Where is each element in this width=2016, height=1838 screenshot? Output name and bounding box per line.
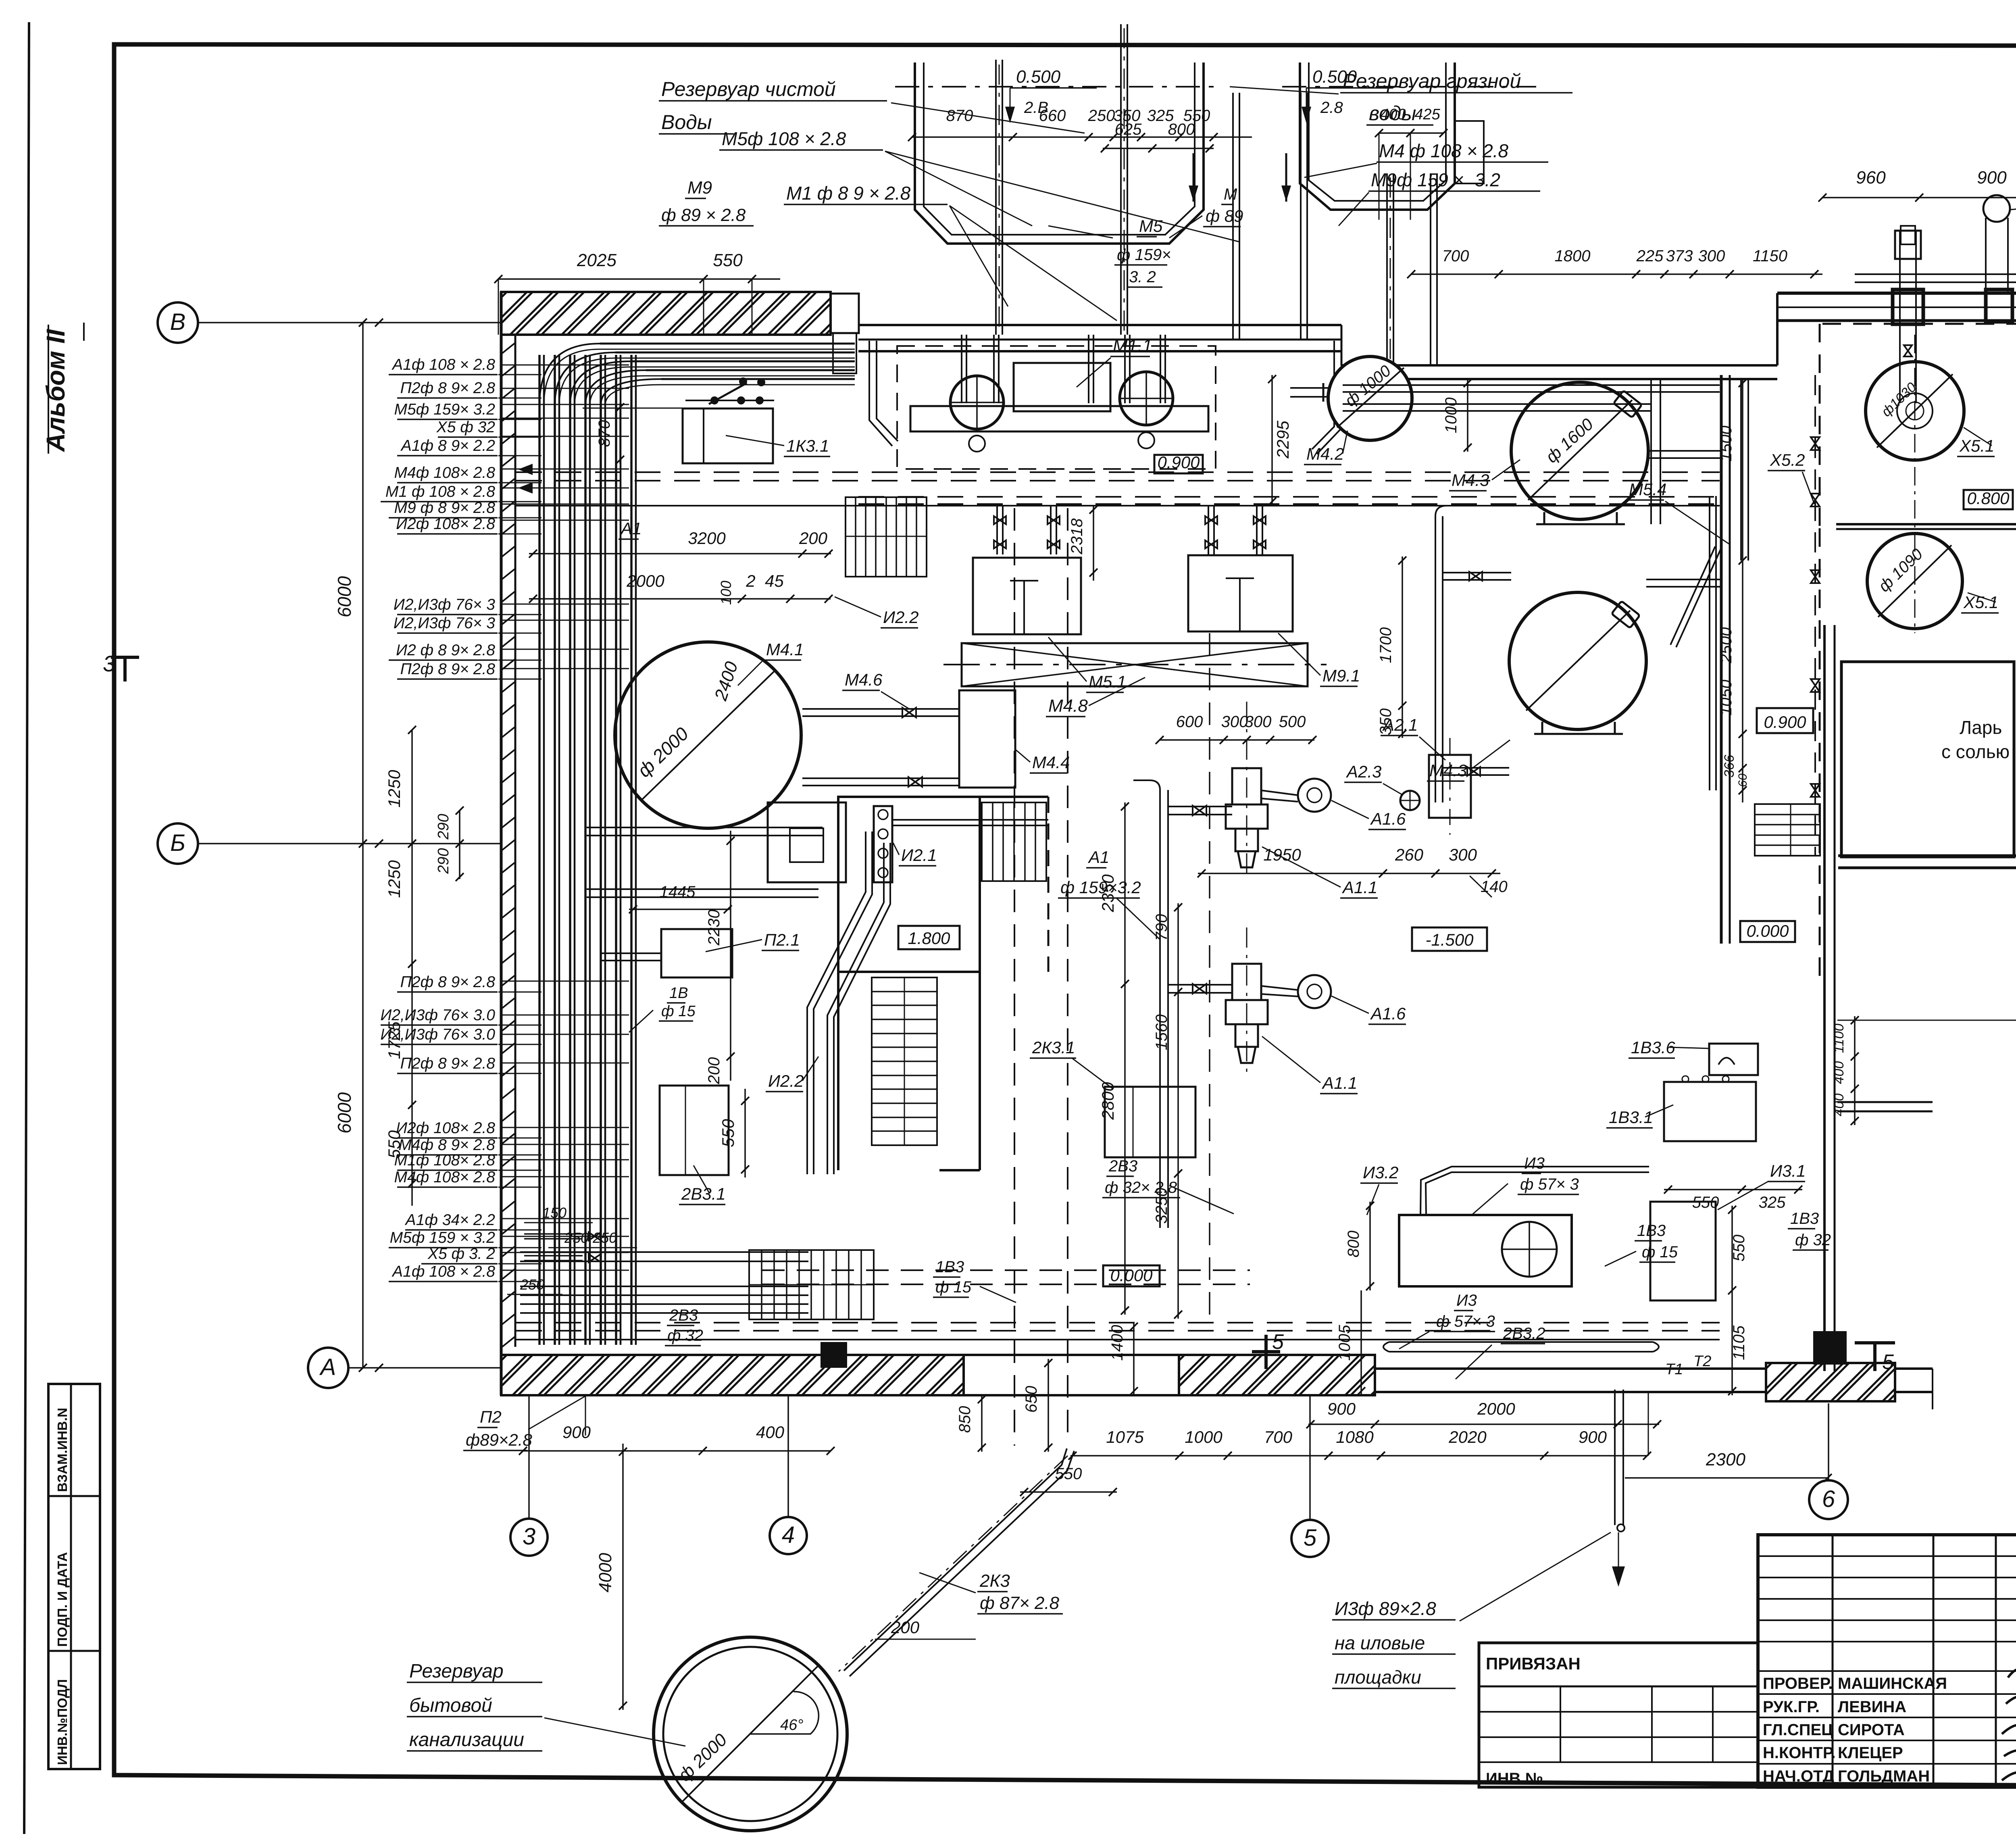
pump М1.1 left circle (950, 376, 1004, 429)
svg-text:1В3: 1В3 (935, 1258, 964, 1276)
svg-text:0.900: 0.900 (1764, 713, 1806, 731)
svg-text:СИРОТА: СИРОТА (1838, 1721, 1905, 1739)
svg-text:А1ф 34× 2.2: А1ф 34× 2.2 (405, 1211, 496, 1229)
svg-text:П2ф 8 9× 2.8: П2ф 8 9× 2.8 (400, 973, 496, 991)
dim 600 300 300 500 center (1160, 739, 1314, 741)
pump bay corner pipes (877, 341, 898, 441)
svg-text:1250: 1250 (385, 770, 404, 808)
svg-text:Резервуар чистой: Резервуар чистой (661, 78, 836, 100)
svg-text:П2.1: П2.1 (764, 930, 800, 949)
svg-text:А1ф 8 9× 2.2: А1ф 8 9× 2.2 (400, 437, 495, 454)
dim 550 bottom diag (1020, 1491, 1117, 1493)
dim 850 650 bottom (981, 1395, 983, 1452)
svg-text:325: 325 (1759, 1194, 1786, 1211)
dim 1725 550 left (411, 964, 413, 1206)
svg-text:М5: М5 (1139, 217, 1163, 235)
А2.3 flow meter (1400, 791, 1420, 810)
svg-text:Ларь: Ларь (1960, 717, 2002, 738)
svg-text:-1.500: -1.500 (1425, 930, 1474, 949)
svg-text:0.000: 0.000 (1110, 1266, 1153, 1285)
pipe М4.6 run (802, 708, 959, 710)
svg-text:Х5 ф 32: Х5 ф 32 (436, 419, 496, 436)
elevation 0.900 pump room (1154, 455, 1203, 473)
svg-text:100: 100 (718, 581, 734, 605)
svg-text:А1ф 108 × 2.8: А1ф 108 × 2.8 (392, 1263, 495, 1280)
svg-text:6000: 6000 (334, 576, 355, 617)
svg-text:М: М (1224, 185, 1237, 203)
pump unit А1.1 upper (1226, 768, 1268, 867)
svg-text:1800: 1800 (1555, 247, 1591, 265)
monorail М4.8 crossed box (962, 643, 1308, 686)
svg-text:А1.6: А1.6 (1370, 1004, 1406, 1023)
stairs near salt room (1755, 804, 1820, 856)
svg-text:И3: И3 (1456, 1292, 1477, 1309)
svg-text:ПРОВЕР.: ПРОВЕР. (1763, 1675, 1833, 1692)
svg-text:400: 400 (756, 1423, 785, 1442)
svg-text:700: 700 (1442, 247, 1469, 265)
svg-text:300: 300 (1245, 713, 1272, 731)
dim 625 800 row (1103, 148, 1214, 149)
svg-text:Резервуар: Резервуар (409, 1661, 504, 1682)
dim 870 660 250 350 325 550 top (912, 136, 1252, 138)
room 1.800 boundary (980, 796, 1048, 798)
black door sill (821, 1342, 847, 1368)
pump А1.1 suction pipes (1168, 806, 1232, 807)
svg-text:6000: 6000 (334, 1092, 355, 1134)
svg-text:5: 5 (1272, 1330, 1284, 1354)
svg-text:1В3: 1В3 (1637, 1222, 1666, 1240)
svg-text:М4 ф 108 × 2.8: М4 ф 108 × 2.8 (1379, 140, 1508, 161)
diagonal pipe 2К3 (850, 1451, 1074, 1676)
svg-text:1105: 1105 (1730, 1325, 1748, 1360)
box М9.1 (1188, 555, 1293, 631)
risers to М5.1 (996, 506, 998, 554)
svg-text:2500: 2500 (1717, 627, 1735, 664)
svg-text:М4.4: М4.4 (1032, 753, 1070, 772)
svg-text:М4.1: М4.1 (766, 640, 804, 659)
svg-text:350: 350 (1377, 709, 1395, 736)
svg-text:Х5 ф 3. 2: Х5 ф 3. 2 (427, 1245, 495, 1263)
svg-text:М5ф 108 × 2.8: М5ф 108 × 2.8 (722, 128, 846, 149)
svg-text:3: 3 (103, 651, 115, 676)
svg-text:М4ф 108× 2.8: М4ф 108× 2.8 (394, 1169, 496, 1186)
axis bubble Б (158, 823, 198, 864)
dim 700 1800 225 373 300 1150 row (1411, 273, 1822, 275)
svg-text:В: В (170, 309, 186, 335)
svg-text:П2: П2 (480, 1407, 502, 1426)
channel dashed band 0.000 (762, 1269, 1250, 1271)
axis bubble А (308, 1348, 348, 1388)
pipe down to sludge fields (1614, 1390, 1616, 1525)
svg-text:150: 150 (542, 1204, 566, 1221)
tanks Х5.1 lower row (1867, 533, 1962, 629)
pipe along wall mid-right (1343, 384, 1720, 386)
svg-text:225: 225 (1636, 247, 1664, 265)
svg-text:М4.2: М4.2 (1306, 444, 1344, 463)
channel vertical below М9.1 (1209, 633, 1210, 1322)
tank ф1600 upper (1511, 382, 1648, 519)
svg-text:0.900: 0.900 (1157, 453, 1200, 472)
svg-text:0.000: 0.000 (1746, 921, 1789, 940)
svg-text:2.8: 2.8 (1320, 99, 1343, 117)
channel vertical dashed to pit (1014, 508, 1015, 1446)
svg-text:М5ф 159× 3.2: М5ф 159× 3.2 (394, 401, 496, 418)
channel dashed band top (516, 471, 1720, 473)
stair right of И2.1 (982, 802, 1046, 881)
svg-text:с солью: с солью (1941, 741, 2010, 762)
svg-text:900: 900 (562, 1423, 591, 1442)
dim 1075 1000 700 1080 2020 900 bottom (1070, 1455, 1647, 1457)
svg-text:46°: 46° (780, 1717, 803, 1734)
svg-text:1560: 1560 (1153, 1015, 1170, 1050)
cigar pipe 2В3.2 (1383, 1342, 1659, 1352)
valves at left wall bottom (589, 1232, 601, 1240)
floor edge line (516, 505, 1720, 506)
svg-text:4000: 4000 (596, 1553, 615, 1592)
svg-text:ф 32: ф 32 (667, 1327, 703, 1344)
svg-text:2000: 2000 (1477, 1399, 1515, 1418)
svg-text:М5.1: М5.1 (1089, 672, 1126, 691)
svg-text:Т1: Т1 (1665, 1361, 1683, 1378)
svg-text:ПРИВЯЗАН: ПРИВЯЗАН (1486, 1654, 1581, 1673)
sheet edge line (24, 22, 29, 1834)
pipes to tank right nozzles (1648, 450, 1721, 452)
svg-text:ГОЛЬДМАН: ГОЛЬДМАН (1838, 1767, 1930, 1785)
svg-text:200: 200 (891, 1618, 920, 1637)
svg-text:А1.1: А1.1 (1321, 1073, 1357, 1092)
svg-text:600: 600 (1176, 713, 1203, 731)
dim 2230 200 И2.1 (730, 831, 731, 1081)
pump baseplate (910, 406, 1208, 431)
svg-text:1В3: 1В3 (1790, 1210, 1819, 1227)
pump unit А1.1 lower (1226, 964, 1268, 1063)
svg-text:Т2: Т2 (1693, 1353, 1711, 1370)
dim 290 290 left (459, 811, 460, 879)
svg-text:1445: 1445 (660, 883, 696, 901)
wall pipe stubs group2 (500, 469, 629, 470)
dim 870 pump bay (619, 403, 621, 464)
dim 6000 left upper (362, 323, 364, 844)
channel dashed band bottom (516, 1322, 1720, 1323)
monorail centerline (943, 664, 1327, 665)
svg-text:790: 790 (1153, 914, 1170, 941)
section mark 5 center (1264, 1335, 1268, 1369)
pipe bundle lower horizontals (520, 1251, 808, 1253)
svg-text:И3: И3 (1524, 1154, 1545, 1172)
dim 1100 400 400 right (1854, 1016, 1856, 1125)
svg-text:1700: 1700 (1377, 627, 1395, 663)
svg-text:0.800: 0.800 (1967, 489, 2010, 508)
svg-text:550: 550 (1055, 1465, 1082, 1483)
svg-text:1005: 1005 (1336, 1325, 1354, 1361)
tank ф1000 М4.2 (1290, 387, 1328, 389)
svg-text:2800: 2800 (1098, 1082, 1117, 1120)
svg-text:КЛЕЦЕР: КЛЕЦЕР (1838, 1744, 1903, 1762)
dim 900 400 bottom left (523, 1450, 831, 1452)
blower А1.6 upper (1298, 779, 1331, 812)
wall top middle (858, 324, 1341, 326)
svg-text:1.800: 1.800 (908, 929, 950, 948)
svg-text:1000: 1000 (1442, 398, 1460, 433)
elevation 0.900 right (1757, 708, 1813, 733)
svg-text:1000: 1000 (1185, 1427, 1223, 1446)
svg-text:1500: 1500 (1717, 426, 1735, 462)
svg-text:2295: 2295 (1273, 421, 1292, 459)
svg-text:ИНВ.№ПОДЛ: ИНВ.№ПОДЛ (55, 1679, 70, 1765)
stairs bottom (749, 1250, 874, 1319)
svg-text:550: 550 (719, 1119, 737, 1147)
svg-text:2В3.2: 2В3.2 (1503, 1325, 1545, 1342)
svg-text:Х5.2: Х5.2 (1770, 450, 1805, 469)
svg-text:И2ф 108× 2.8: И2ф 108× 2.8 (396, 515, 495, 533)
risers to Х5.1 tanks (1899, 231, 1901, 403)
wall pipe stubs group4 (500, 649, 629, 650)
svg-text:2000: 2000 (626, 571, 664, 590)
svg-text:ф 15: ф 15 (1642, 1243, 1678, 1261)
fitting dots near 1К3.1 (710, 396, 719, 404)
dim 550 325 1В3.1 (1664, 1189, 1802, 1190)
column at T5 (1813, 1331, 1847, 1365)
axis bubble В (158, 302, 198, 343)
box И3.1 (1650, 1202, 1716, 1300)
svg-text:1250: 1250 (385, 860, 404, 898)
А2.1 box (1429, 755, 1471, 818)
svg-text:ПОДП. И ДАТА: ПОДП. И ДАТА (55, 1552, 70, 1647)
svg-text:2В3: 2В3 (669, 1307, 698, 1324)
top horizontal pipe bundle (600, 343, 855, 345)
title block left table (1479, 1643, 1758, 1787)
А3.4 chimney (1985, 218, 1987, 293)
svg-text:И2,И3ф 76× 3: И2,И3ф 76× 3 (394, 596, 495, 613)
header pipe right block (1855, 273, 2016, 275)
svg-text:850: 850 (956, 1406, 974, 1433)
dim 1500 2500 1050 366 60 right of М4.3 (1742, 379, 1743, 802)
svg-text:1В3.1: 1В3.1 (1609, 1108, 1653, 1127)
axis bubble 4 (770, 1517, 807, 1554)
dim 800 1005 И3 (1369, 1202, 1371, 1290)
svg-text:1В: 1В (669, 985, 688, 1002)
wall salt room (1841, 662, 2014, 857)
elevation 0.000 bottom (1103, 1265, 1160, 1286)
Х5.1 tank axes (1914, 335, 1916, 633)
dim 2350 790 1560 А1 (1124, 802, 1126, 988)
dirty water reservoir (1300, 63, 1455, 210)
svg-text:М9 ф 8 9× 2.8: М9 ф 8 9× 2.8 (394, 499, 496, 517)
valves on risers (1904, 345, 1912, 356)
svg-text:А2.3: А2.3 (1345, 762, 1381, 781)
svg-text:1100: 1100 (1831, 1023, 1847, 1053)
svg-text:ф 87× 2.8: ф 87× 2.8 (980, 1593, 1060, 1613)
dim 2318 vertical (1093, 506, 1094, 581)
svg-text:ф 15: ф 15 (935, 1278, 972, 1296)
svg-text:М4.8: М4.8 (1048, 696, 1088, 716)
svg-text:0.500: 0.500 (1016, 67, 1061, 87)
tank stand lower (1541, 722, 1543, 734)
tanks Х5.1 upper row (1866, 362, 1964, 460)
svg-text:250 250: 250 250 (564, 1230, 617, 1246)
svg-text:140: 140 (1481, 878, 1508, 896)
tank ф1600 lower М4.3 (1509, 592, 1646, 729)
dim 3200 200 row (529, 553, 831, 554)
svg-text:2К3.1: 2К3.1 (1032, 1038, 1075, 1057)
tank stand upper (1543, 512, 1545, 524)
tank М4.1 ф2000 (615, 642, 801, 828)
svg-text:ф 32: ф 32 (1795, 1231, 1831, 1249)
svg-text:2В3: 2В3 (1108, 1157, 1137, 1175)
stairs top near pump bay (846, 497, 927, 577)
section mark 3 left (111, 656, 139, 659)
svg-text:800: 800 (1168, 121, 1195, 138)
svg-text:М9.1: М9.1 (1322, 666, 1360, 685)
dim 1250 1250 left (411, 730, 413, 992)
svg-text:И2ф 108× 2.8: И2ф 108× 2.8 (396, 1119, 495, 1137)
pump М1.1 right circle (1120, 372, 1173, 425)
svg-text:И2,И3ф 76× 3.0: И2,И3ф 76× 3.0 (380, 1007, 495, 1024)
svg-text:канализации: канализации (409, 1729, 524, 1750)
svg-text:3250: 3250 (1153, 1188, 1170, 1224)
svg-text:РУК.ГР.: РУК.ГР. (1763, 1698, 1820, 1716)
vertical pipe near М5.4 (1650, 379, 1652, 524)
svg-text:Н.КОНТР.: Н.КОНТР. (1763, 1744, 1836, 1762)
svg-text:Резервуар грязной: Резервуар грязной (1343, 70, 1521, 92)
svg-text:290: 290 (435, 848, 452, 874)
svg-text:900: 900 (1977, 168, 2007, 188)
svg-text:ВЗАМ.ИНВ.N: ВЗАМ.ИНВ.N (55, 1408, 70, 1492)
svg-text:290: 290 (435, 814, 452, 840)
svg-text:М9: М9 (687, 178, 712, 198)
svg-text:1К3.1: 1К3.1 (786, 436, 829, 455)
dim 2000 2 45 row (529, 598, 831, 600)
svg-text:А1.1: А1.1 (1341, 878, 1377, 897)
svg-text:М1.1: М1.1 (1113, 336, 1152, 356)
box 1В3.6 (1709, 1044, 1758, 1075)
X5.2 dashed line with valves (1814, 375, 1816, 855)
wall right of hall (1720, 375, 1723, 944)
clean water reservoir (915, 63, 1204, 244)
dim 1700 350 (1402, 556, 1403, 738)
left stamp boxes (48, 1384, 100, 1769)
left bottom pipes to И2.2 (556, 1294, 557, 1295)
svg-text:ф 89 × 2.8: ф 89 × 2.8 (661, 205, 746, 225)
svg-text:ф89×2.8: ф89×2.8 (466, 1430, 532, 1449)
svg-text:И2.2: И2.2 (768, 1071, 804, 1090)
svg-text:на иловые: на иловые (1335, 1632, 1425, 1653)
stairs main center (872, 977, 937, 1145)
svg-text:2 45: 2 45 (746, 571, 784, 590)
svg-text:ЛЕВИНА: ЛЕВИНА (1838, 1698, 1906, 1716)
box 1В3.1 (1664, 1082, 1756, 1141)
svg-text:М1 ф 108 × 2.8: М1 ф 108 × 2.8 (385, 483, 495, 500)
svg-text:870: 870 (946, 107, 973, 125)
pipe to П2.1 (601, 952, 661, 954)
svg-text:300: 300 (1221, 713, 1248, 731)
box И2.1 unit (768, 802, 846, 882)
svg-text:1080: 1080 (1336, 1427, 1374, 1446)
big kinked pipe И2.2 to И2.1 (807, 831, 866, 1174)
svg-text:ф 89: ф 89 (1206, 206, 1243, 225)
dashed room boundary right block (1822, 323, 2016, 325)
svg-text:Х5.1: Х5.1 (1963, 593, 1998, 612)
tee fittings in wall (1893, 290, 1923, 324)
wall top right block (1777, 292, 2016, 295)
dim 6000 left lower (362, 844, 364, 1368)
svg-text:300: 300 (1698, 247, 1725, 265)
svg-text:400: 400 (1831, 1094, 1847, 1117)
svg-text:ф 15: ф 15 (661, 1003, 696, 1020)
svg-text:М4.3: М4.3 (1452, 471, 1489, 490)
svg-text:ф 57× 3: ф 57× 3 (1520, 1175, 1579, 1193)
svg-text:И2.2: И2.2 (883, 608, 918, 627)
dim 550 2В3.1 (744, 1089, 746, 1177)
svg-text:Х5.1: Х5.1 (1959, 436, 1994, 455)
blower А1.6 lower (1298, 975, 1331, 1008)
dirty reservoir right extension (1455, 121, 1484, 183)
wall bottom lines (964, 1354, 1179, 1356)
svg-text:250: 250 (520, 1276, 544, 1293)
svg-text:Альбом II: Альбом II (41, 329, 70, 452)
svg-text:2.В: 2.В (1024, 99, 1048, 117)
box 2В3.1 (660, 1086, 729, 1175)
svg-text:6: 6 (1822, 1486, 1835, 1512)
svg-text:Воды: Воды (661, 111, 712, 133)
svg-text:А1ф 108 × 2.8: А1ф 108 × 2.8 (392, 356, 495, 373)
box П2.1 (661, 929, 732, 977)
svg-text:900: 900 (1327, 1399, 1356, 1418)
door at top-left wall (831, 294, 859, 333)
И3 inlet pipe (1420, 1167, 1649, 1215)
axis bubble 6 (1809, 1480, 1848, 1519)
pipe И2.2 horizontals (587, 827, 823, 828)
axis bubble 5 (1291, 1520, 1329, 1557)
dim 1445 П2.1 (629, 909, 730, 910)
box М4.4 (959, 690, 1015, 788)
svg-text:3. 2: 3. 2 (1129, 268, 1156, 286)
elevation 0.800 right block (1964, 490, 2013, 509)
elevation 0.000 right (1740, 921, 1795, 942)
box М5.1 (973, 558, 1081, 634)
svg-text:воды: воды (1369, 102, 1416, 125)
svg-text:900: 900 (1579, 1427, 1607, 1446)
thin line to right dims (1837, 1020, 2016, 1021)
svg-text:2В3.1: 2В3.1 (681, 1184, 726, 1203)
svg-text:550: 550 (1730, 1235, 1748, 1262)
left vertical pipe bundle (538, 355, 541, 1345)
svg-text:ф 159×: ф 159× (1117, 246, 1171, 264)
svg-text:4: 4 (782, 1522, 795, 1548)
svg-text:И2.1: И2.1 (901, 846, 937, 865)
wall lower right vertical (1823, 983, 1826, 1371)
section mark Т5 bottom (1855, 1341, 1895, 1344)
wall pipe stubs group7 (500, 1218, 629, 1219)
svg-text:870: 870 (596, 420, 613, 447)
svg-text:А: А (319, 1354, 336, 1380)
wall left (500, 292, 503, 1395)
svg-text:бытовой: бытовой (409, 1695, 492, 1716)
pipe diag between tanks (1670, 546, 1715, 645)
svg-text:И3.2: И3.2 (1363, 1163, 1398, 1182)
svg-text:И3ф 89×2.8: И3ф 89×2.8 (1335, 1598, 1436, 1619)
svg-text:500: 500 (1279, 713, 1306, 731)
svg-text:М4.6: М4.6 (845, 670, 883, 689)
wall below salt room (1823, 625, 1826, 983)
svg-text:200: 200 (705, 1057, 723, 1085)
svg-text:650: 650 (1023, 1386, 1040, 1413)
wall right block bottom (1838, 854, 2016, 857)
pump station risers (961, 335, 962, 403)
elevation -1.500 (1412, 927, 1487, 951)
svg-text:П2ф 8 9× 2.8: П2ф 8 9× 2.8 (400, 1055, 496, 1072)
svg-text:М9ф 159 × 3.2: М9ф 159 × 3.2 (1371, 169, 1500, 190)
